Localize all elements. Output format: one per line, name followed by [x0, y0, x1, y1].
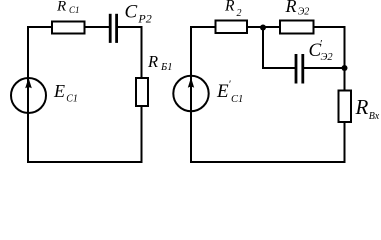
wire: left loop top (E_C1 top corner to C_P2 left plate): [28, 26, 109, 28]
resistor R_2: [216, 21, 248, 34]
wire: right loop top: [191, 26, 346, 28]
label R_C1: [56, 0, 80, 15]
source E_C1: [11, 78, 46, 113]
wire: left loop left vertical: [27, 26, 29, 162]
label R_Bx: [355, 95, 380, 122]
resistor R_B1: [136, 78, 148, 106]
svg-text:R: R: [147, 52, 158, 71]
wire: left loop right vertical: [141, 27, 143, 162]
wire: left loop bottom: [27, 161, 143, 163]
svg-text:C1: C1: [69, 5, 80, 15]
wire: right loop right vertical: [344, 27, 346, 162]
svg-text:C: C: [125, 1, 138, 22]
node B (junction on right vertical with C_Э2): [342, 65, 348, 71]
svg-text:E: E: [53, 81, 65, 101]
capacitor C_P2: [110, 14, 116, 43]
svg-text:2: 2: [237, 8, 242, 19]
capacitor C_Э2: [296, 54, 303, 84]
svg-text:R: R: [285, 0, 297, 16]
svg-text:Э2: Э2: [298, 7, 310, 18]
label C_P2: [125, 1, 152, 25]
svg-text:C1: C1: [66, 94, 78, 105]
svg-text:P2: P2: [137, 11, 151, 25]
resistor R_C1: [52, 22, 85, 34]
svg-text:Вх: Вх: [369, 111, 380, 122]
node A (junction of R_2 / R_Э2 / C_Э2 branch): [260, 25, 266, 31]
label R_B1: [147, 52, 172, 73]
svg-text:R: R: [224, 0, 235, 15]
wire: branch horizontal to C_Э2 left plate: [262, 67, 295, 69]
svg-text:C1: C1: [231, 94, 243, 105]
label C_Э2: [309, 38, 334, 63]
label E_C1: [53, 81, 78, 104]
svg-text:R: R: [355, 95, 369, 119]
svg-text:Б1: Б1: [160, 62, 172, 73]
wire: right loop left vertical: [190, 26, 192, 162]
source E_C1prime: [173, 76, 208, 111]
label R_2: [224, 0, 242, 19]
wire: left loop top right segment (C_P2 to R_B1 corner): [118, 26, 143, 28]
svg-text:E: E: [216, 81, 229, 102]
label E_C1prime: [216, 79, 243, 105]
label R_Э2: [285, 0, 310, 18]
svg-text:R: R: [56, 0, 66, 15]
resistor R_Э2: [280, 21, 314, 34]
resistor R_Bx: [339, 91, 352, 123]
wire: branch from node A down: [262, 28, 264, 70]
svg-text:Э2: Э2: [321, 52, 334, 63]
wire: C_Э2 right plate to node B: [304, 67, 345, 69]
wire: right loop bottom: [190, 161, 346, 163]
